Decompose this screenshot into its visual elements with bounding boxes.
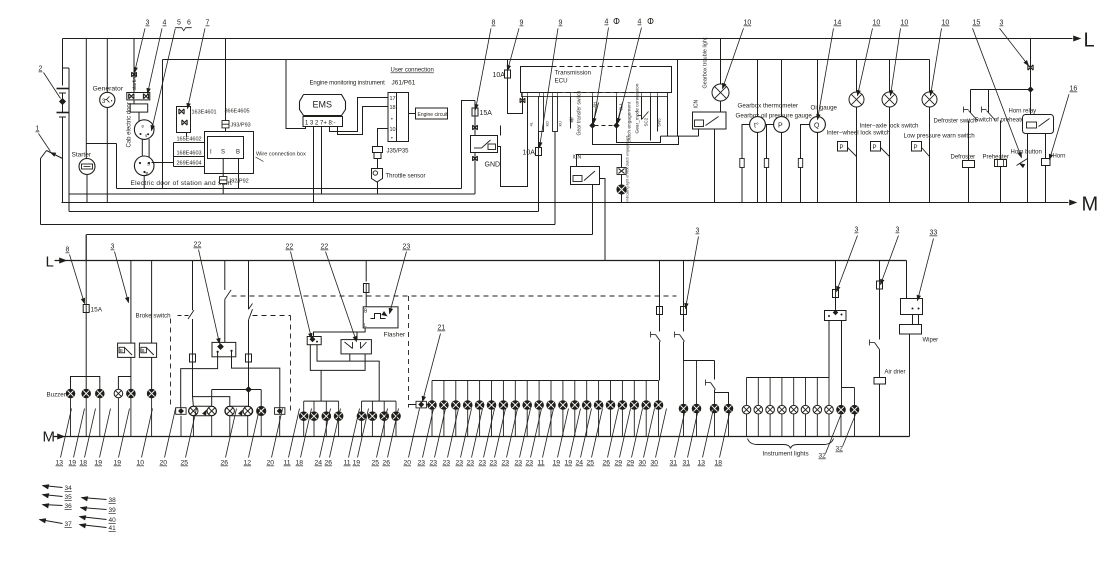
svg-text:16: 16	[1070, 86, 1078, 93]
ECU pin rect a	[539, 97, 544, 132]
terminal arrow 37	[40, 520, 63, 524]
wire g2 stub	[361, 401, 363, 412]
svg-text:30: 30	[651, 460, 659, 467]
svg-text:26: 26	[221, 460, 229, 467]
wire J93 down	[225, 128, 227, 132]
wire inst stub	[781, 378, 783, 406]
wire EMS pin2	[321, 127, 323, 195]
svg-text:Broke switch: Broke switch	[136, 313, 172, 320]
wire row stub	[645, 381, 647, 401]
lamp x714	[714, 390, 716, 405]
wire lamp stub	[117, 398, 119, 437]
fuse 10A second	[538, 132, 540, 148]
wire y89 branch	[971, 89, 1031, 91]
svg-text:B: B	[146, 171, 149, 176]
wire oval stub	[247, 416, 249, 437]
defroster R1	[963, 161, 975, 168]
svg-text:22: 22	[286, 244, 294, 251]
relay K5	[825, 311, 847, 321]
svg-text:•: •	[111, 98, 113, 104]
svg-text:23: 23	[443, 460, 451, 467]
svg-text:4: 4	[638, 19, 642, 26]
svg-text:Inter−wheel lock switch: Inter−wheel lock switch	[827, 130, 891, 137]
lamp indicating light	[621, 175, 623, 185]
pressure switch P	[871, 142, 881, 152]
lamp row	[547, 401, 556, 410]
svg-text:Engine circuit: Engine circuit	[418, 112, 449, 118]
wire row down	[502, 409, 504, 436]
svg-text:17: 17	[390, 96, 396, 102]
svg-text:P: P	[778, 123, 783, 130]
connector c20a	[176, 408, 186, 415]
wire row down	[610, 409, 612, 436]
svg-text:20: 20	[267, 460, 275, 467]
svg-text:20: 20	[404, 460, 412, 467]
svg-text:Starter: Starter	[72, 152, 92, 159]
wire g2 stub	[383, 401, 385, 412]
wire row down	[467, 409, 469, 436]
svg-text:23: 23	[403, 244, 411, 251]
terminal arrow 38	[82, 498, 107, 500]
ignition circle upper	[134, 120, 154, 140]
svg-text:4L: 4L	[529, 121, 534, 126]
throttle sensor	[372, 169, 383, 183]
connector 163E4601	[177, 107, 191, 133]
svg-text:15A: 15A	[91, 307, 103, 314]
svg-text:User connection: User connection	[391, 68, 434, 74]
wire box2 down	[151, 357, 153, 389]
lamp row	[475, 401, 484, 410]
wire row down	[514, 409, 516, 436]
svg-text:11: 11	[344, 460, 351, 467]
wiper switch box	[901, 299, 923, 315]
connector c20b	[275, 408, 285, 415]
wire pin527	[527, 97, 529, 187]
svg-text:M: M	[1082, 194, 1099, 216]
wire EMS 8- to 18	[338, 107, 389, 135]
oval lamp group 1	[189, 406, 217, 415]
lamp b6	[147, 389, 156, 398]
wire throttle stub	[377, 159, 379, 169]
svg-text:31: 31	[683, 460, 691, 467]
wire EMS box left edge	[162, 60, 164, 189]
wire defroster lamp line	[968, 121, 970, 203]
svg-text:25: 25	[181, 460, 189, 467]
lamp x683	[683, 361, 685, 405]
net L top bus	[63, 38, 1073, 40]
wire EMS pin1 feed	[286, 60, 306, 129]
wire flasher feed	[365, 261, 367, 282]
wire bus y224	[41, 224, 556, 226]
connector cab door top	[133, 39, 135, 93]
wire lamp to M	[621, 194, 623, 202]
wire g2 down	[383, 421, 385, 437]
svg-text:366E4605: 366E4605	[225, 109, 250, 115]
wire oval stub	[211, 416, 213, 437]
gauge t°	[757, 60, 759, 117]
lamp row	[654, 401, 663, 410]
svg-text:165E4602: 165E4602	[177, 137, 202, 143]
svg-text:indicating light of lock clutc: indicating light of lock clutch engageme…	[626, 136, 630, 202]
shelf2	[118, 377, 130, 390]
terminal arrow 35	[43, 495, 63, 497]
lamp row	[571, 401, 580, 410]
svg-text:Defroster switch: Defroster switch	[934, 119, 977, 125]
svg-text:B: B	[142, 348, 145, 353]
svg-text:Horn button: Horn button	[1011, 150, 1042, 156]
wire horn relay pin1	[1027, 134, 1029, 203]
EMS body	[300, 95, 346, 116]
svg-text:269E4604: 269E4604	[177, 161, 202, 167]
wire row stub	[455, 381, 457, 401]
lamp group 1 bus	[304, 400, 339, 402]
relay GND K	[471, 136, 498, 153]
svg-text:Gearbox thermometer: Gearbox thermometer	[738, 103, 799, 110]
dashed x170	[170, 319, 172, 409]
dashed y315 right	[253, 315, 291, 317]
svg-text:13: 13	[56, 460, 64, 467]
wire g2 down	[395, 421, 397, 437]
wire lamp stub	[151, 398, 153, 437]
wire row stub	[526, 381, 528, 401]
wire row stub	[574, 381, 576, 401]
connector J93/P93	[222, 121, 229, 128]
wire EMS pin3	[313, 127, 315, 203]
svg-text:18: 18	[390, 105, 396, 111]
wire circle1-circle2 b	[148, 139, 150, 158]
wire x225 drop	[225, 39, 227, 121]
lamp x728	[724, 404, 733, 413]
wire row down	[574, 409, 576, 436]
wire flasher L out	[314, 328, 366, 337]
svg-text:L: L	[46, 254, 54, 271]
preheater R2	[995, 160, 1007, 167]
wire sender	[801, 125, 810, 203]
wire lamp down	[889, 107, 891, 203]
svg-text:22: 22	[194, 242, 202, 249]
wire pin10 throttle	[378, 129, 389, 147]
svg-text:38: 38	[109, 497, 117, 504]
air drier R3	[874, 378, 886, 385]
wire y234 feed	[87, 234, 593, 236]
wire 163E4601 down	[186, 133, 188, 137]
lamp instrument	[789, 405, 798, 414]
shelf y376	[71, 377, 100, 393]
instrument bus	[747, 377, 830, 379]
wire fuse down	[85, 313, 87, 390]
svg-text:10: 10	[942, 20, 950, 27]
connector sender	[798, 159, 802, 168]
lamp row	[452, 401, 461, 410]
wire inst stub	[746, 378, 748, 406]
leader 1	[39, 134, 51, 152]
svg-text:S: S	[221, 150, 225, 156]
wire oval1 left drop	[192, 397, 195, 407]
svg-text:11: 11	[538, 460, 545, 467]
wire inst stub	[793, 378, 795, 406]
wire x714 down	[715, 390, 729, 405]
svg-text:9: 9	[520, 20, 524, 27]
wire pin667	[667, 97, 669, 137]
svg-text:5: 5	[177, 20, 181, 27]
wire group1 stem	[320, 370, 322, 401]
wire circle1-circle2 a	[141, 139, 143, 158]
wire bus y211	[69, 211, 539, 213]
wire row down	[526, 409, 528, 436]
wire sender	[767, 125, 774, 203]
wire EMS 7+ to 17	[330, 98, 389, 132]
svg-text:32: 32	[819, 453, 827, 460]
switch x714	[714, 361, 716, 380]
wire row down	[431, 409, 433, 436]
svg-text:34: 34	[65, 485, 73, 492]
svg-text:29: 29	[615, 460, 623, 467]
lamp row	[582, 401, 591, 410]
lamp x854	[854, 388, 856, 406]
wire lamp down	[856, 107, 858, 203]
wire inst stub	[828, 378, 830, 406]
battery GB	[62, 39, 64, 86]
lamp row	[523, 401, 532, 410]
svg-text:8: 8	[492, 20, 496, 27]
wire wiper pins	[912, 315, 914, 325]
svg-text:ECU: ECU	[555, 78, 568, 85]
svg-text:26: 26	[325, 460, 333, 467]
svg-text:Wire connection box: Wire connection box	[256, 152, 306, 158]
wire inst down	[757, 414, 759, 437]
wire row stub	[502, 381, 504, 401]
leader 2	[44, 73, 61, 99]
svg-text:10: 10	[137, 460, 145, 467]
wire g1 stub	[313, 401, 315, 412]
wire lamp stub	[130, 398, 132, 437]
switch x224	[224, 261, 226, 290]
connector J61/P61	[388, 93, 409, 142]
wire B pin down	[238, 159, 240, 189]
wire row stub	[431, 381, 433, 401]
wire starter to M	[86, 175, 88, 203]
wire g1 stub	[325, 401, 327, 412]
wire jog battery	[63, 67, 70, 69]
wire x835 feed	[835, 261, 837, 290]
switch x248	[248, 261, 250, 310]
wire row stub	[586, 381, 588, 401]
relay K22c	[307, 337, 321, 345]
fuse 10A first	[507, 60, 509, 71]
wire inst down	[769, 414, 771, 437]
connector cab door block	[127, 93, 150, 100]
wire row down	[491, 409, 493, 436]
wire relay feed top	[577, 155, 622, 168]
lamp gearbox trouble light	[720, 39, 722, 85]
svg-text:10: 10	[744, 20, 752, 27]
wire relay pin x604	[600, 179, 606, 261]
wire row stub	[491, 381, 493, 401]
svg-text:3: 3	[855, 227, 859, 234]
wire y370	[310, 345, 365, 371]
pressure switch P	[838, 142, 848, 152]
svg-text:L: L	[1084, 30, 1095, 52]
svg-text:37: 37	[65, 521, 73, 528]
svg-text:B: B	[236, 150, 240, 156]
svg-text:Instrument lights: Instrument lights	[763, 451, 809, 458]
gauge P	[781, 60, 783, 117]
svg-text:P: P	[840, 145, 844, 151]
brace instrument lights	[748, 439, 834, 449]
lamp row bus	[432, 380, 659, 382]
wire relay coil down	[698, 129, 700, 136]
lamp row	[440, 401, 449, 410]
svg-text:168E4603: 168E4603	[177, 151, 202, 157]
wire 10A2 down	[538, 156, 540, 212]
svg-text:Air drier: Air drier	[885, 370, 906, 376]
lamp row	[463, 401, 472, 410]
svg-text:10: 10	[901, 20, 909, 27]
wire inst down	[793, 414, 795, 437]
switch x683	[683, 315, 685, 332]
lamp x840	[841, 388, 843, 406]
svg-text:S: S	[147, 162, 150, 167]
wire g1 down	[338, 421, 340, 437]
wire relay22d feed	[356, 332, 358, 340]
bracket 5-6	[175, 28, 192, 31]
svg-text:Engine monitoring instrument: Engine monitoring instrument	[310, 81, 386, 87]
wire lamp stub	[70, 398, 72, 437]
wiper motor M2	[900, 325, 922, 335]
junction box cab	[130, 104, 148, 112]
wire circle2 down	[143, 176, 145, 189]
svg-text:Gear_mode conversion: Gear_mode conversion	[635, 83, 641, 133]
wire 22d left pin	[349, 354, 351, 361]
wire EMS box bottom	[117, 188, 462, 190]
lamp g1	[310, 412, 319, 421]
wire 168E4603	[174, 156, 205, 158]
wire g2 stub	[395, 401, 397, 412]
svg-text:4: 4	[163, 20, 167, 27]
svg-text:26: 26	[603, 460, 611, 467]
wire relay pin right	[841, 321, 843, 388]
wire relay right pin	[498, 97, 528, 187]
wire g1 down	[313, 421, 315, 437]
connector J92/P92	[220, 177, 227, 184]
wire x683 feed	[683, 261, 685, 307]
wire inst stub	[816, 378, 818, 406]
svg-text:1: 1	[36, 126, 40, 133]
wire 10A to ECU pin	[508, 78, 523, 114]
wire oval stub	[260, 416, 262, 437]
wire gauge to M	[817, 132, 819, 202]
preheater switch	[988, 90, 990, 113]
svg-text:19: 19	[114, 460, 122, 467]
wire inst down	[828, 414, 830, 437]
fuse f192	[190, 354, 196, 362]
wire y360	[317, 345, 379, 401]
wire x116 drop	[116, 144, 118, 189]
lamp b2	[82, 389, 91, 398]
wire row down	[645, 409, 647, 436]
lamp instrument	[801, 405, 810, 414]
wire g2 down	[361, 421, 363, 437]
wire inst stub	[805, 378, 807, 406]
wire starter branch y143	[86, 143, 116, 145]
wire x86 corner	[85, 235, 87, 261]
wire g2 stub	[371, 401, 373, 412]
terminal arrow 41	[80, 525, 107, 528]
lamp b3	[96, 389, 105, 398]
wire to circle1	[138, 112, 140, 122]
svg-text:•: •	[391, 117, 393, 123]
wire g2 down	[371, 421, 373, 437]
wire relay left pin	[181, 353, 218, 408]
wire GND down	[474, 153, 476, 195]
wire to x854	[842, 387, 855, 389]
lamp instrument	[825, 405, 834, 414]
fuse 15A	[474, 101, 476, 109]
svg-text:2: 2	[39, 66, 43, 73]
wire lamp stub	[99, 398, 101, 437]
fuse f248	[246, 354, 252, 362]
wire row stub	[514, 381, 516, 401]
lamp instrument	[778, 405, 787, 414]
svg-text:19: 19	[69, 460, 77, 467]
svg-text:26: 26	[383, 460, 391, 467]
wire horn relay pin2	[1045, 134, 1047, 203]
wire relay pin left	[828, 321, 830, 378]
wire preheater line	[1000, 121, 1002, 203]
lamp row	[642, 401, 651, 410]
svg-text:18: 18	[80, 460, 88, 467]
svg-text:B: B	[120, 348, 123, 353]
wire relay pin to M	[714, 129, 716, 203]
wire fuse192 chain	[193, 362, 230, 406]
svg-text:GND: GND	[485, 162, 501, 169]
wire generator to M	[106, 108, 108, 203]
generator G	[106, 39, 108, 93]
wire oval stub	[180, 416, 182, 437]
wire row down	[633, 409, 635, 436]
lamp lock indicator	[889, 60, 891, 93]
lamp row	[428, 401, 437, 410]
svg-text:18: 18	[296, 460, 304, 467]
svg-text:J93/P93: J93/P93	[231, 123, 251, 129]
svg-text:Horn: Horn	[1053, 154, 1066, 160]
ECU pin strip	[522, 93, 668, 97]
wire second top rail	[163, 59, 930, 61]
lamp row	[535, 401, 544, 410]
pressure switch P	[912, 142, 922, 152]
switch x659	[651, 334, 656, 336]
defroster switch	[970, 90, 972, 113]
terminal arrow 39	[81, 508, 107, 510]
wire row stub	[467, 381, 469, 401]
net M top bus	[62, 202, 1069, 204]
wire row stub	[658, 381, 660, 401]
svg-text:23: 23	[430, 460, 438, 467]
svg-text:23: 23	[502, 460, 510, 467]
svg-text:10: 10	[390, 127, 396, 133]
svg-text:10A: 10A	[523, 150, 536, 157]
wire circle2 right	[152, 162, 174, 164]
svg-text:J61/P61: J61/P61	[392, 80, 416, 87]
wire x677 drop	[677, 60, 679, 137]
svg-text:12: 12	[244, 460, 252, 467]
svg-text:22: 22	[321, 244, 329, 251]
svg-text:7: 7	[206, 20, 210, 27]
wire row down	[550, 409, 552, 436]
svg-text:3: 3	[146, 20, 150, 27]
wire fuse to relay	[474, 116, 476, 136]
svg-text:15A: 15A	[480, 110, 493, 117]
